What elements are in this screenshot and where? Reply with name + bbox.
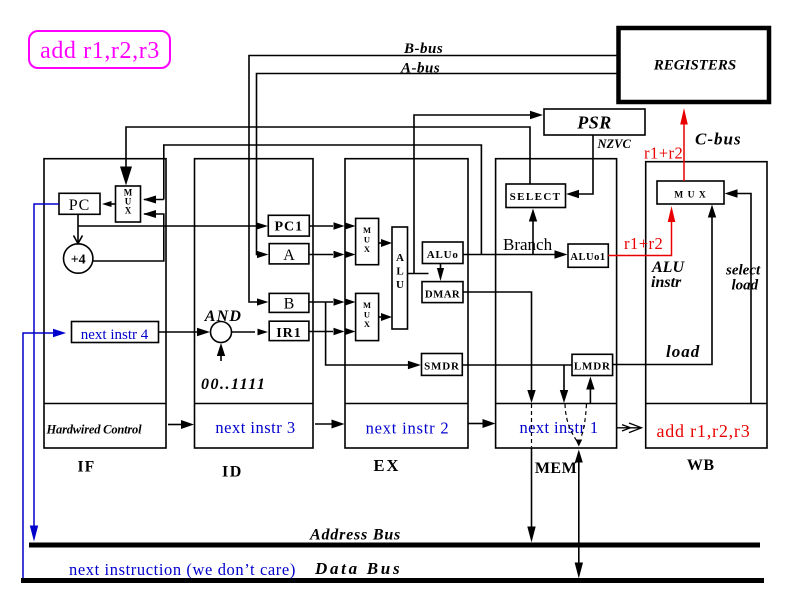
svg-text:SELECT: SELECT — [510, 191, 562, 203]
svg-text:L: L — [396, 266, 403, 278]
svg-text:select: select — [725, 263, 761, 279]
svg-text:Hardwired Control: Hardwired Control — [46, 423, 143, 437]
svg-text:+4: +4 — [71, 253, 86, 268]
svg-text:add r1,r2,r3: add r1,r2,r3 — [40, 38, 160, 64]
svg-text:r1+r2: r1+r2 — [624, 234, 663, 253]
svg-text:PSR: PSR — [576, 113, 612, 133]
svg-text:NZVC: NZVC — [597, 137, 632, 151]
svg-text:REGISTERS: REGISTERS — [653, 58, 737, 74]
svg-text:C-bus: C-bus — [695, 130, 742, 149]
svg-text:DMAR: DMAR — [425, 289, 460, 301]
svg-text:X: X — [125, 206, 132, 216]
svg-text:A: A — [283, 247, 295, 264]
svg-text:ID: ID — [222, 464, 243, 481]
svg-text:WB: WB — [687, 457, 715, 474]
svg-text:next instr 3: next instr 3 — [215, 418, 295, 437]
svg-text:M: M — [363, 300, 371, 310]
svg-text:U: U — [364, 235, 370, 245]
svg-text:B-bus: B-bus — [403, 41, 443, 57]
svg-text:IF: IF — [78, 459, 96, 476]
svg-text:Branch: Branch — [503, 235, 553, 254]
svg-text:A: A — [396, 252, 404, 264]
svg-text:U: U — [364, 310, 370, 320]
svg-text:instr: instr — [651, 274, 682, 291]
svg-text:r1+r2: r1+r2 — [644, 144, 683, 163]
svg-text:U: U — [396, 279, 404, 291]
svg-text:add r1,r2,r3: add r1,r2,r3 — [656, 421, 750, 441]
svg-text:load: load — [732, 278, 759, 294]
svg-text:ALUo: ALUo — [427, 249, 459, 261]
svg-text:M U X: M U X — [674, 191, 706, 201]
svg-text:Address Bus: Address Bus — [309, 527, 401, 544]
svg-text:IR1: IR1 — [276, 326, 302, 341]
svg-text:X: X — [364, 319, 371, 329]
svg-text:ALUo1: ALUo1 — [570, 252, 605, 263]
svg-text:B: B — [284, 296, 295, 313]
svg-text:MEM: MEM — [535, 460, 577, 477]
svg-text:load: load — [666, 342, 700, 361]
svg-text:X: X — [364, 244, 371, 254]
svg-text:SMDR: SMDR — [424, 361, 460, 373]
svg-text:next instruction (we don’t car: next instruction (we don’t care) — [69, 560, 296, 579]
svg-text:AND: AND — [204, 308, 242, 325]
svg-text:00..1111: 00..1111 — [201, 376, 266, 393]
svg-text:next instr 4: next instr 4 — [81, 327, 149, 343]
svg-text:Data Bus: Data Bus — [314, 559, 402, 578]
svg-text:EX: EX — [374, 456, 401, 475]
svg-text:next instr 2: next instr 2 — [366, 419, 450, 438]
svg-text:M: M — [363, 225, 371, 235]
svg-text:LMDR: LMDR — [574, 361, 611, 373]
svg-text:PC: PC — [69, 197, 91, 214]
svg-text:PC1: PC1 — [274, 220, 303, 235]
